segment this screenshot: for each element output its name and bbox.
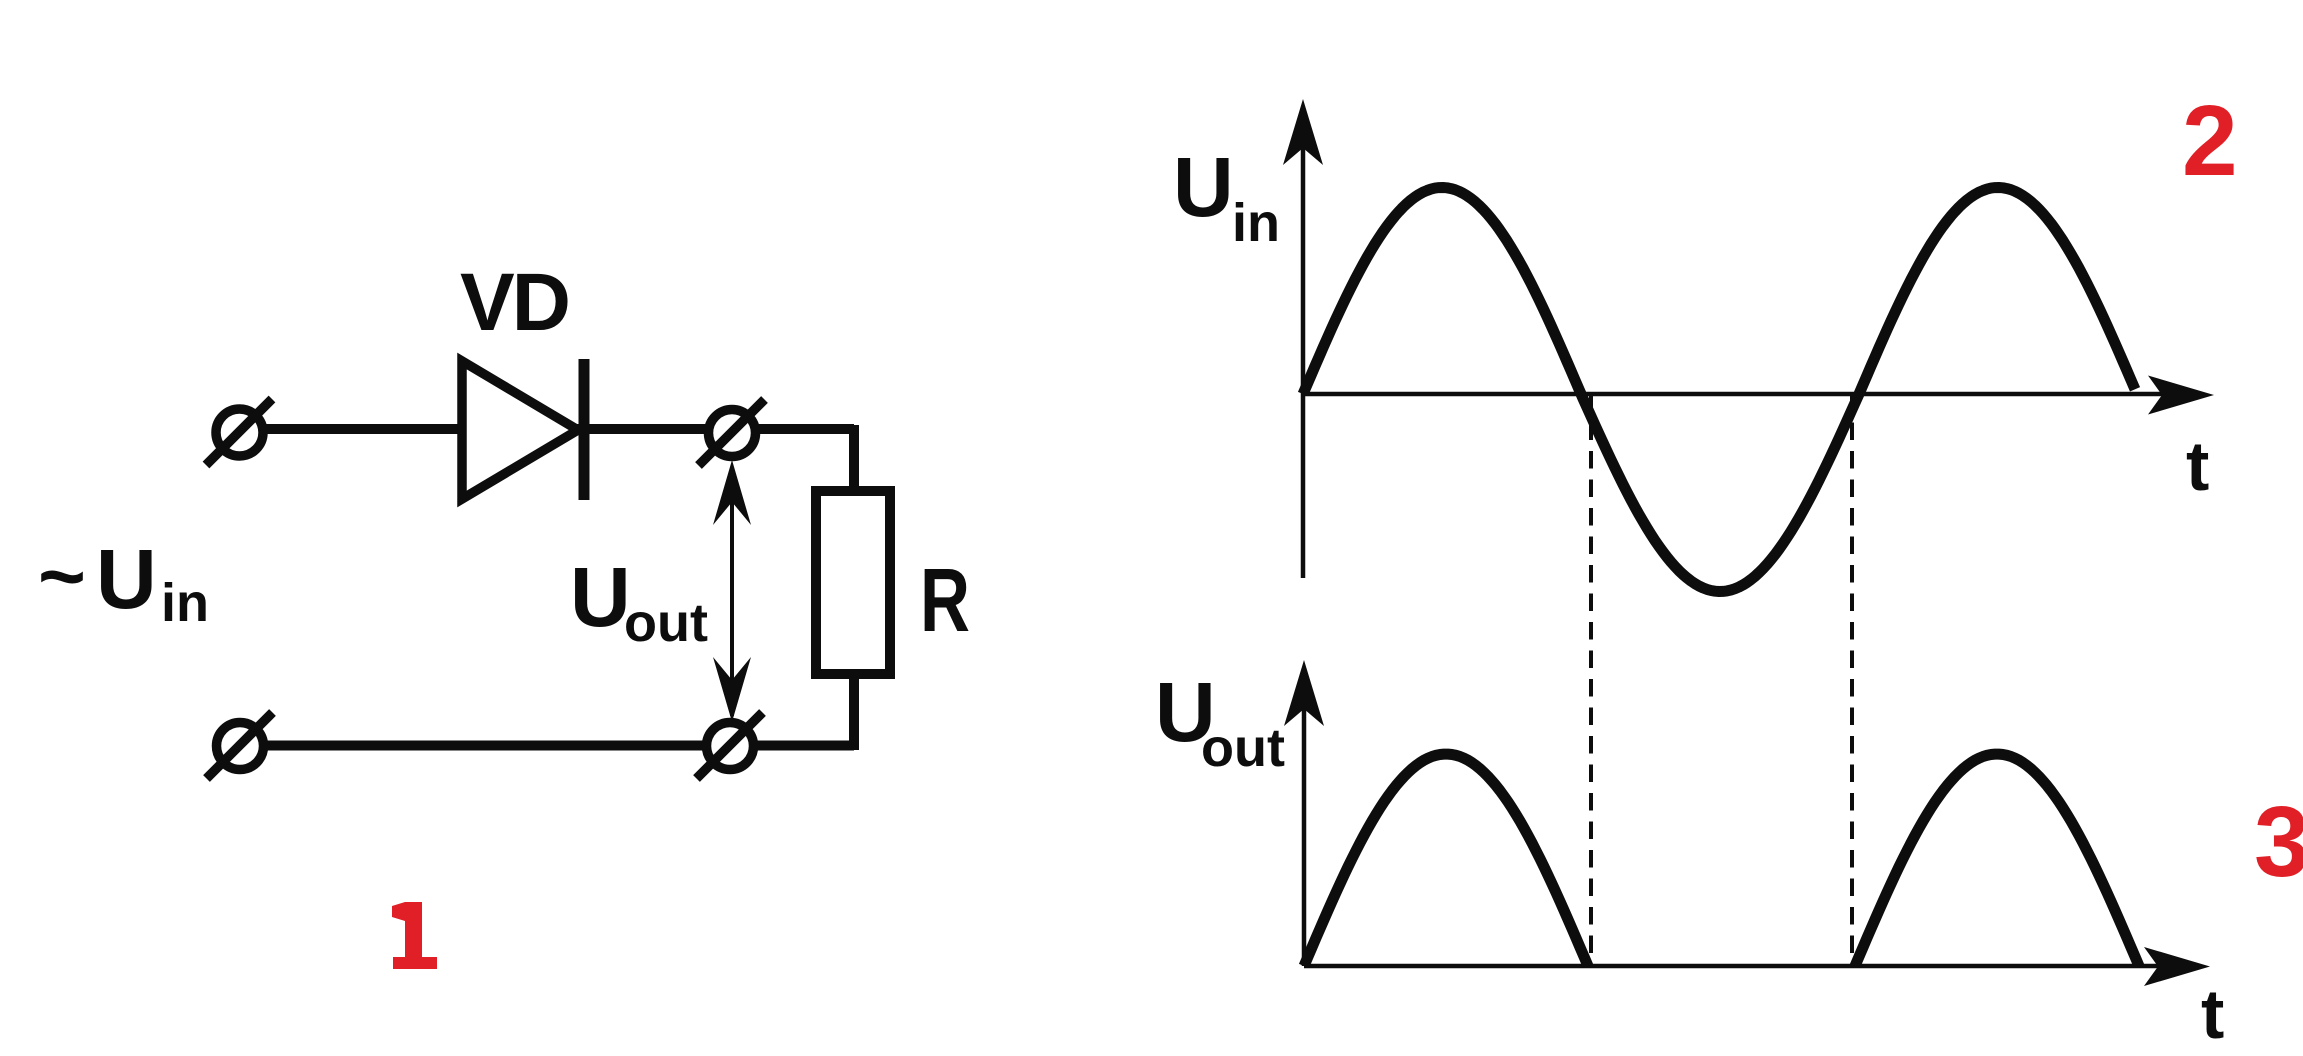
diode VD cathode bar [579,359,590,500]
bottom graph rectified hump 1 [1304,754,1588,966]
svg-text:t: t [2201,975,2224,1053]
terminal input top [206,399,272,465]
diode VD triangle anode [462,361,578,499]
top graph sine curve Uin [1303,188,2135,592]
bottom graph x-axis [1304,964,2166,969]
wire top from input terminal through diode to output terminal and resistor corner [250,424,854,434]
wire bottom from lower input terminal to lower output terminal and corner [250,741,854,751]
resistor R body [816,491,890,674]
svg-text:R: R [920,551,970,651]
dashed line at first zero crossing [1589,394,1593,966]
terminal output bottom [697,713,763,779]
svg-text:out: out [1201,718,1285,778]
red number 1 [392,902,437,969]
terminal output top [699,400,765,466]
Uout arrowhead down [713,657,751,722]
svg-text:out: out [624,593,708,653]
svg-text:U: U [1173,140,1234,234]
Uout arrowhead up [713,460,751,525]
svg-text:2: 2 [2182,85,2238,197]
top graph y-axis [1301,110,1306,578]
top graph x-axis arrowhead [2148,376,2214,415]
wire right vertical from resistor bottom [849,674,859,750]
top graph x-axis [1303,392,2170,397]
svg-text:VD: VD [460,257,568,348]
wire right vertical into resistor top [849,425,859,491]
svg-text:U: U [96,532,157,626]
svg-text:in: in [1232,193,1280,253]
svg-text:t: t [2186,427,2209,505]
Uout measurement arrow line [730,468,734,716]
terminal input bottom [207,713,273,779]
bottom graph rectified hump 2 [1855,754,2139,966]
svg-text:U: U [570,550,631,644]
top graph y-axis arrowhead [1283,99,1323,165]
bottom graph x-axis arrowhead [2144,947,2210,986]
bottom graph y-axis arrowhead [1284,660,1324,726]
svg-text:3: 3 [2254,786,2303,898]
dashed line at second zero crossing [1850,394,1854,966]
svg-text:in: in [161,573,209,633]
svg-text:~: ~ [38,531,86,622]
bottom graph y-axis [1302,670,1307,966]
